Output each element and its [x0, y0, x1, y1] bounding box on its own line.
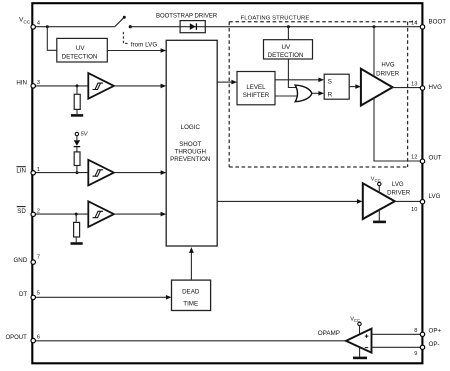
svg-text:DRIVER: DRIVER — [387, 189, 411, 196]
svg-text:7: 7 — [37, 254, 40, 260]
svg-text:OUT: OUT — [429, 154, 442, 161]
svg-text:LIN: LIN — [16, 168, 26, 175]
wire HIN to buffer — [33, 85, 88, 87]
wire BOOT supply to HVG driver — [373, 27, 375, 77]
junction BOOT/HVG supply tap — [373, 25, 376, 28]
pin 14 BOOT — [411, 19, 446, 29]
svg-text:from LVG: from LVG — [131, 41, 158, 48]
svg-text:HIN: HIN — [16, 80, 27, 87]
svg-text:LVG: LVG — [392, 181, 404, 188]
svg-text:UV: UV — [76, 45, 85, 52]
svg-text:DETECTION: DETECTION — [62, 54, 98, 61]
5V supply node — [75, 131, 89, 137]
floating structure boundary — [229, 16, 416, 167]
pin 13 HVG — [411, 81, 442, 91]
svg-text:GND: GND — [13, 257, 27, 264]
svg-text:DT: DT — [19, 291, 27, 298]
ground opamp — [353, 348, 367, 358]
svg-text:LEVEL: LEVEL — [246, 84, 266, 91]
VCC supply LVG driver — [371, 177, 381, 193]
VCC supply opamp — [350, 316, 361, 334]
svg-text:8: 8 — [414, 328, 417, 334]
svg-text:UV: UV — [281, 44, 290, 51]
level shifter block — [237, 72, 275, 105]
svg-text:5: 5 — [37, 291, 40, 297]
wire logic to LVG driver — [217, 199, 362, 204]
schmitt buffer LIN — [88, 160, 114, 186]
svg-text:9: 9 — [414, 351, 417, 357]
resistor HIN pull-down — [74, 86, 80, 114]
pin 5 DT — [19, 291, 40, 300]
opamp U5 — [318, 329, 372, 353]
junction VCC/UV tap — [46, 25, 49, 28]
junction SD resistor — [75, 213, 78, 216]
bootstrap driver box — [156, 14, 218, 33]
wire level shifter to S input — [275, 78, 324, 83]
pin 10 LVG — [411, 193, 440, 213]
diode LIN pull-up — [74, 136, 81, 147]
svg-text:DRIVER: DRIVER — [376, 70, 400, 77]
svg-text:OP-: OP- — [429, 341, 440, 348]
svg-text:FLOATING STRUCTURE: FLOATING STRUCTURE — [241, 16, 310, 22]
ground SD resistor — [71, 242, 83, 245]
wire UV detection to OR gate — [288, 59, 298, 88]
resistor LIN pull-up — [74, 147, 80, 172]
UV detection block (floating) — [264, 40, 313, 59]
ground HIN resistor — [71, 114, 83, 117]
wire LIN buffer to logic — [114, 170, 166, 175]
SR latch U2 — [324, 74, 349, 99]
svg-text:14: 14 — [411, 20, 417, 26]
schmitt buffer SD — [88, 201, 114, 227]
svg-text:OPAMP: OPAMP — [318, 330, 340, 337]
wire HVG driver to HVG pin — [393, 87, 422, 89]
svg-text:OPOUT: OPOUT — [5, 335, 27, 341]
wire SD to buffer — [33, 213, 88, 215]
svg-text:4: 4 — [37, 21, 40, 27]
wire VCC rail to switch — [33, 26, 115, 28]
svg-text:SD: SD — [17, 208, 26, 215]
pin 6 OPOUT — [5, 334, 40, 343]
pin 2 SD — [17, 207, 40, 217]
svg-text:6: 6 — [37, 334, 40, 340]
dead time block — [172, 280, 211, 310]
svg-text:HVG: HVG — [429, 84, 443, 91]
wire DT to dead time — [33, 295, 172, 300]
wire dead time to logic — [189, 247, 194, 280]
wire bootstrap rail to BOOT pin — [130, 26, 421, 28]
LVG driver U4 — [363, 181, 411, 219]
wire level shifter to OR gate — [275, 95, 300, 97]
wire OP- to opamp — [372, 346, 422, 348]
wire VCC to UV detection — [47, 27, 57, 51]
wire logic to level shifter — [217, 80, 237, 85]
svg-text:SHOOT: SHOOT — [179, 141, 201, 148]
wire SR latch to HVG driver — [349, 84, 361, 89]
svg-text:DEAD: DEAD — [182, 288, 200, 295]
UV detection block (left) — [57, 38, 108, 62]
wire LVG driver to LVG pin — [395, 200, 422, 202]
svg-text:SHIFTER: SHIFTER — [243, 92, 270, 99]
svg-text:OP+: OP+ — [429, 327, 442, 334]
svg-text:BOOTSTRAP DRIVER: BOOTSTRAP DRIVER — [156, 14, 218, 20]
from LVG dashed control — [123, 32, 157, 49]
wire OR gate to R input — [312, 91, 324, 96]
wire SD buffer to logic — [114, 212, 166, 217]
resistor SD pull-down — [74, 214, 80, 242]
wire OPOUT to opamp — [33, 340, 346, 342]
wire OP+ to opamp — [372, 333, 422, 335]
svg-text:TIME: TIME — [183, 301, 198, 308]
wire HVG driver return to OUT pin — [374, 98, 422, 161]
pin 9 OP- — [414, 341, 439, 357]
pin 4 VCC — [19, 17, 40, 29]
wire UV detection to logic — [107, 48, 166, 53]
HVG driver U3 — [361, 62, 400, 106]
junction LIN resistor — [76, 171, 79, 174]
switch SW1 blade — [115, 16, 132, 29]
schmitt buffer HIN — [88, 73, 114, 99]
svg-text:13: 13 — [411, 81, 417, 87]
svg-text:3: 3 — [37, 80, 40, 86]
svg-text:DETECTION: DETECTION — [268, 52, 304, 59]
OR gate — [295, 85, 312, 102]
svg-text:S: S — [328, 79, 332, 86]
svg-text:10: 10 — [411, 207, 417, 213]
svg-text:LVG: LVG — [429, 193, 441, 200]
pin 1 LIN — [16, 167, 40, 175]
pin 7 GND — [13, 254, 40, 264]
wire LIN to buffer — [33, 172, 88, 174]
pin 8 OP+ — [414, 327, 441, 336]
wire HIN buffer to logic — [114, 84, 166, 89]
svg-text:HVG: HVG — [381, 62, 394, 69]
svg-text:R: R — [328, 91, 333, 98]
svg-text:2: 2 — [37, 208, 40, 214]
junction BOOT/UV tap — [287, 25, 290, 28]
svg-text:BOOT: BOOT — [429, 19, 447, 26]
logic block — [166, 40, 217, 246]
svg-text:THROUGH: THROUGH — [175, 149, 206, 156]
svg-text:1: 1 — [37, 167, 40, 173]
svg-text:PREVENTION: PREVENTION — [170, 156, 210, 163]
svg-text:12: 12 — [411, 154, 417, 160]
junction HIN resistor — [76, 84, 79, 87]
wire BOOT to UV detection (floating) — [287, 27, 289, 40]
svg-text:LOGIC: LOGIC — [181, 124, 201, 131]
ground LVG driver — [373, 210, 386, 222]
pin 3 HIN — [16, 80, 40, 89]
pin 12 OUT — [411, 154, 442, 163]
bootstrap diode — [190, 23, 197, 30]
